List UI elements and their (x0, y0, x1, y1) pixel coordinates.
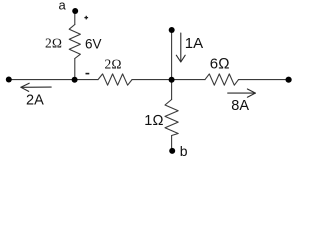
svg-text:8A: 8A (231, 98, 249, 114)
svg-text:a: a (59, 0, 67, 13)
wire left terminal to junction (9, 79, 98, 81)
svg-text:2A: 2A (26, 92, 44, 108)
wire R2 to center node (132, 79, 205, 81)
wire center node to resistor R4 (171, 80, 173, 100)
current arrow 8A (228, 92, 256, 94)
node b dot (169, 148, 175, 154)
svg-text:1A: 1A (185, 35, 203, 52)
wire top terminal to center node (171, 31, 173, 80)
current arrow 2A (21, 86, 51, 88)
right terminal dot (286, 77, 292, 83)
svg-text:6Ω: 6Ω (210, 56, 230, 73)
resistor R2 2ohm horizontal (98, 74, 132, 85)
svg-text:b: b (180, 143, 188, 159)
svg-text:1Ω: 1Ω (144, 113, 163, 129)
current arrow 1A (180, 33, 182, 62)
svg-text:2Ω: 2Ω (45, 36, 62, 51)
svg-text:2Ω: 2Ω (105, 56, 122, 71)
resistor R4 1ohm vertical (165, 100, 178, 136)
plus sign (84, 16, 88, 20)
resistor R3 6ohm horizontal (205, 74, 239, 85)
resistor R1 2ohm vertical left branch (69, 25, 80, 59)
wire R4 to node b (171, 136, 173, 151)
left terminal dot (6, 77, 12, 83)
center node dot (169, 77, 175, 83)
top terminal dot (169, 27, 175, 33)
wire R3 to right terminal (239, 79, 289, 81)
wire a to resistor R1 (74, 13, 76, 25)
svg-text:6V: 6V (85, 37, 102, 52)
wire R1 to bottom node (74, 59, 76, 80)
node a dot (72, 8, 78, 14)
minus sign (86, 73, 90, 75)
junction node left dot (72, 77, 78, 83)
